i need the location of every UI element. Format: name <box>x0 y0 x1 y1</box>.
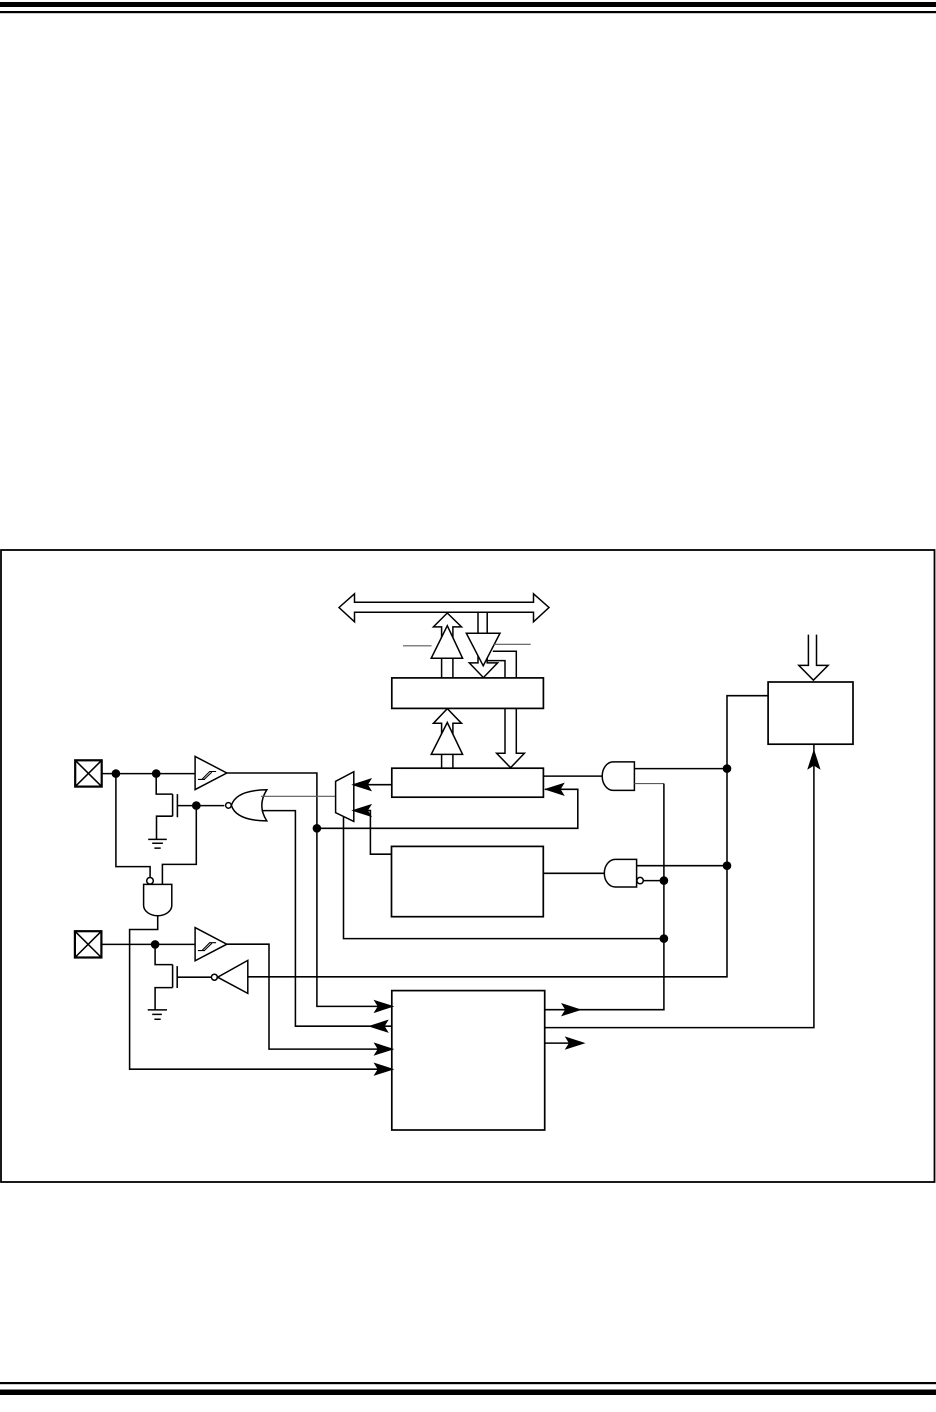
node SDA-FET junction <box>152 769 161 778</box>
write bus shaft from bus <box>469 612 497 677</box>
wire AND2 out to SSPMSK <box>543 872 604 874</box>
NOR gate <box>231 790 266 821</box>
arrowhead into state machine in3 <box>375 1044 392 1055</box>
arrowhead state machine out stub <box>567 1038 584 1049</box>
AND2 input bubble <box>637 877 643 883</box>
arrowhead clock net <box>563 1004 580 1015</box>
wire mux out to NOR input1 <box>261 795 336 797</box>
wire SSPSR to mux input1 <box>354 784 392 786</box>
write buffer triangle <box>466 633 500 666</box>
SSPBUF register box <box>392 678 544 709</box>
NOR gate output bubble <box>226 803 232 809</box>
BRG hollow down arrow <box>799 635 828 681</box>
SSPSR shift register box <box>392 768 544 797</box>
wire AND1 inputA <box>634 768 727 770</box>
node AND2 inA junction <box>723 861 732 870</box>
read label leader <box>403 645 432 647</box>
node mux select junction <box>660 934 669 943</box>
wire nand input2 <box>162 806 196 885</box>
state machine box <box>392 991 545 1130</box>
SSPBUF-SSPSR hollow down arrow <box>497 708 525 767</box>
wire nand input1 <box>116 774 150 879</box>
arrowhead into state machine in4 <box>375 1064 392 1075</box>
page header thin rule <box>0 11 936 13</box>
node AND1 inA junction <box>723 764 732 773</box>
node SCL-FET junction <box>151 940 160 949</box>
SSPSR read buffer triangle <box>431 723 462 755</box>
NAND input bubble <box>147 878 154 885</box>
wire NOR input2 from state machine <box>262 811 392 1027</box>
read buffer triangle <box>431 626 462 659</box>
write-to-SSPSR bus elbow <box>488 651 516 678</box>
node AND2 inB junction <box>660 876 669 885</box>
schmitt buffer SCL <box>195 928 227 961</box>
schmitt SDA hysteresis glyph <box>198 772 216 780</box>
transistor Q1 SDA driver <box>156 774 177 840</box>
page footer thin rule <box>0 1382 936 1384</box>
wire schmitt SDA out <box>227 773 392 1006</box>
wire Q2 gate <box>177 976 211 978</box>
read bus hollow up arrow <box>433 613 461 678</box>
arrowhead on NOR feed <box>371 1021 388 1032</box>
SSPMSK register box <box>392 846 544 916</box>
wire NAND out to state machine <box>130 916 392 1069</box>
NAND gate down <box>144 884 172 915</box>
wire AND2 inputA <box>637 865 727 867</box>
inverter clock driver <box>218 960 248 993</box>
NAND gate match <box>604 859 636 887</box>
ground SDA <box>148 839 167 848</box>
figure frame <box>1 550 935 1182</box>
wire AND2 inputB <box>643 880 664 882</box>
arrowhead into state machine in1 <box>375 1001 392 1012</box>
page footer thick rule <box>0 1390 936 1396</box>
wire clock net vertical <box>545 784 664 1010</box>
SCL pad <box>75 931 102 957</box>
wire SSPMSK to mux input2 <box>354 811 392 855</box>
write label leader <box>494 643 531 645</box>
node SDA-NAND junction <box>112 769 121 778</box>
wire Q1 gate <box>177 805 224 807</box>
arrowhead into mux input2 <box>354 805 371 816</box>
schmitt SCL hysteresis glyph <box>198 943 216 951</box>
wire inverter input from BRG net <box>248 696 768 977</box>
SDA wire <box>101 773 195 775</box>
mux <box>336 772 354 822</box>
wire state machine to BRG reload <box>545 744 814 1027</box>
AND gate shift clock <box>602 762 634 791</box>
node schmitt out junction <box>313 824 322 833</box>
node Q1 gate junction <box>192 801 201 810</box>
baud rate generator box <box>768 682 853 744</box>
wire state machine out stub <box>545 1042 583 1044</box>
transistor Q2 SCL driver <box>155 944 177 1010</box>
arrowhead into mux input1 <box>354 779 371 790</box>
wire schmitt SCL out <box>227 944 392 1049</box>
wire AND1 out to SSPSR <box>543 775 602 777</box>
ground SCL <box>148 1010 167 1019</box>
SDA pad <box>75 760 102 786</box>
SSPSR read hollow up arrow <box>433 709 461 769</box>
wire AND1 inputB <box>634 783 664 785</box>
wire SDA feedback to SSPSR <box>317 789 578 828</box>
inverter bubble <box>211 974 217 980</box>
wire mux select <box>344 817 664 939</box>
arrowhead into SSPSR <box>547 784 564 795</box>
arrowhead into BRG <box>809 752 820 769</box>
SCL wire <box>101 943 195 945</box>
page header thick rule <box>0 2 936 7</box>
internal data bus double arrow <box>339 594 549 622</box>
schmitt buffer SDA <box>195 756 227 789</box>
